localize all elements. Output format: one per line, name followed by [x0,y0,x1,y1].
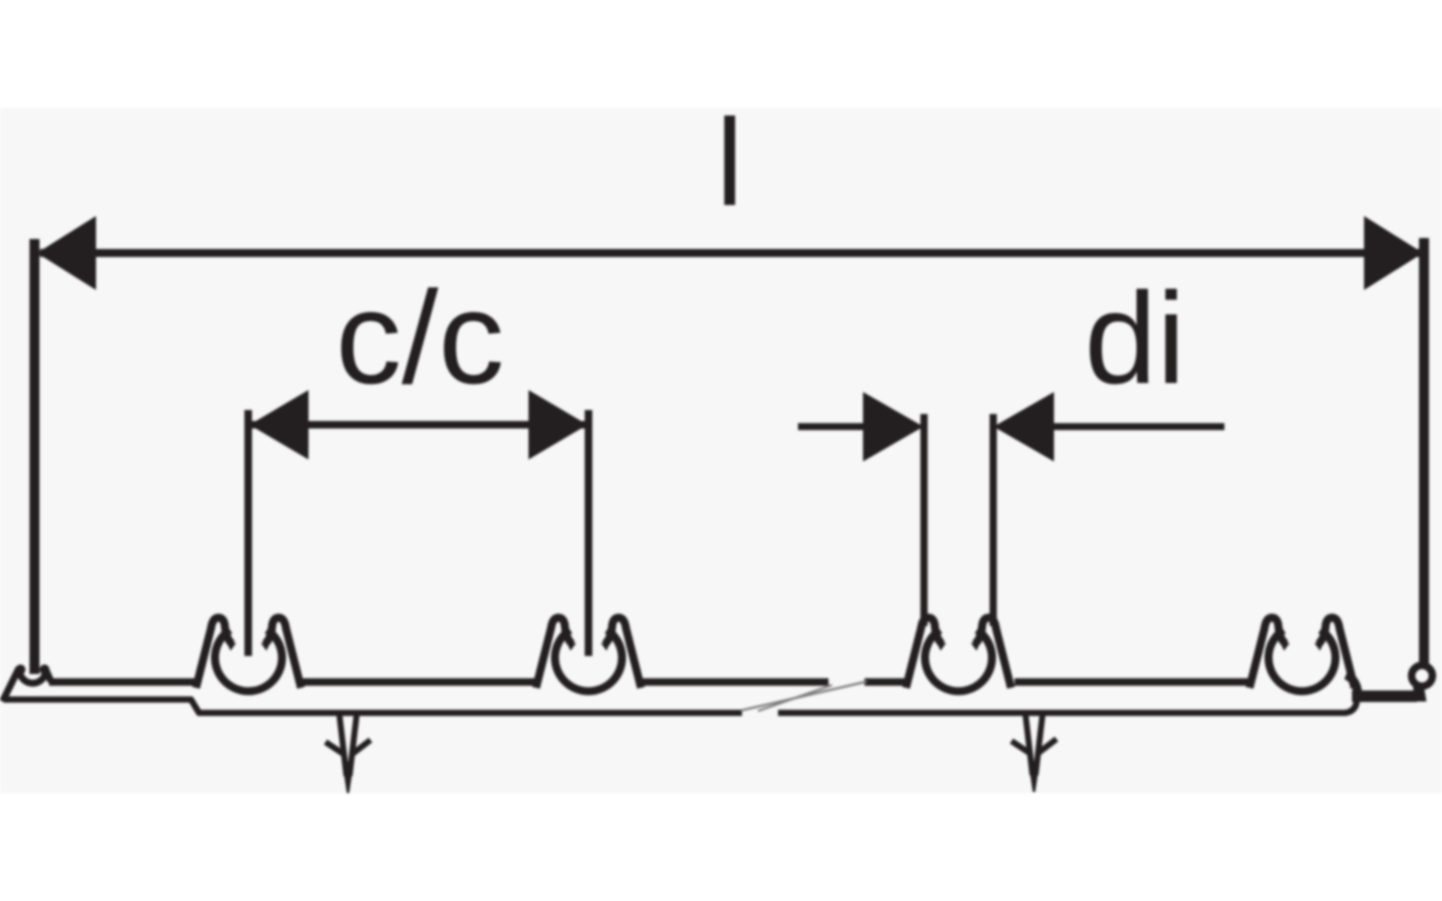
background band [0,108,1442,793]
rail right end ring [1412,665,1433,686]
extension line di right [990,414,997,626]
extension line l right [1419,238,1429,668]
rail left end cup [16,665,52,684]
extension line l left [30,239,40,674]
arrowhead di right [994,392,1055,462]
dimension line di right [1053,423,1224,430]
clip C3 [906,618,1011,692]
break line thin A [741,682,867,711]
dimension line di left [798,423,868,430]
label c/c [336,264,505,411]
rail top line segment 1 [49,678,195,686]
rail top line segment 4 [865,678,908,686]
dimension line c/c [252,421,585,429]
rail bottom line right [778,700,1357,713]
break line thin B [758,685,832,711]
extension line c/c right [585,410,593,656]
extension line di left [920,414,927,626]
label di [1084,265,1185,411]
arrowhead l left [37,216,96,290]
label l [716,95,743,232]
rail right end connector [1346,675,1358,698]
extension line c/c left [244,410,252,656]
dimension line l [40,249,1420,257]
rail top line segment 5 [1015,678,1249,686]
flow arrow left [326,714,371,793]
rail top line segment 3 [642,678,829,686]
arrowhead c/c right [529,390,588,460]
svg-text:di: di [1084,265,1185,411]
clip C4 [1250,618,1355,692]
clip C2 [536,618,641,692]
rail left end diagonal [3,668,20,702]
svg-text:c/c: c/c [336,264,505,411]
svg-text:l: l [716,95,743,232]
rail right end tab [1352,691,1417,703]
flow arrow right [1012,713,1057,792]
rail bottom line left with step [4,700,742,713]
arrowhead l right [1364,216,1423,290]
arrowhead c/c left [250,390,309,460]
rail right end ring tail [1413,687,1427,702]
rail top line segment 2 [302,678,535,686]
clip C1 [196,618,301,692]
arrowhead di left [863,392,924,462]
